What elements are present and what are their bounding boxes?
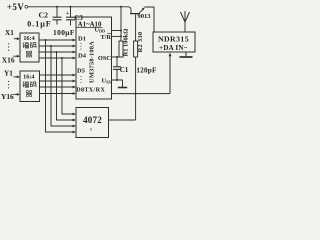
- capacitor C2: [53, 7, 62, 25]
- node C2 rail junction: [56, 6, 58, 8]
- wire D3 row: [39, 51, 73, 53]
- capacitor C3: [66, 7, 75, 26]
- svg-text:100μF: 100μF: [53, 28, 75, 37]
- svg-text:C1: C1: [120, 66, 129, 74]
- wire D7 row: [40, 86, 74, 88]
- wire OSC: [112, 56, 122, 58]
- svg-text:^: ^: [89, 128, 92, 134]
- encoder E1 16:4 box: [20, 33, 39, 62]
- wire R2 to node: [135, 57, 137, 120]
- node C3 rail junction: [70, 6, 72, 8]
- node UDD junction: [120, 30, 122, 32]
- resistor R1: [119, 41, 123, 57]
- svg-text:T/R: T/R: [101, 34, 112, 41]
- svg-text:4072: 4072: [83, 115, 102, 125]
- svg-text:D1: D1: [78, 36, 86, 43]
- node V4 tap: [61, 57, 63, 59]
- svg-text:Y1: Y1: [4, 70, 13, 78]
- wire D1 row: [39, 39, 73, 41]
- wire D2 row: [39, 45, 73, 47]
- node C1 top junction: [116, 56, 118, 58]
- wire tap V4: [62, 58, 74, 114]
- svg-text:Y16: Y16: [1, 92, 14, 101]
- wire D8 row: [40, 93, 74, 95]
- resistor R2: [134, 41, 138, 57]
- ground NDR minus: [180, 52, 193, 57]
- node R1 rail junction: [120, 6, 122, 8]
- svg-text:R1 100kΩ: R1 100kΩ: [123, 29, 130, 57]
- svg-text:USS: USS: [101, 78, 111, 85]
- svg-text:+5V: +5V: [7, 2, 25, 12]
- wire D4 row: [39, 57, 73, 59]
- wire emitter to NDR315 plus: [145, 7, 155, 32]
- wire D6 row: [40, 80, 74, 82]
- svg-text:9013: 9013: [137, 13, 151, 20]
- capacitor C1: [113, 57, 121, 80]
- svg-text:+DA IN−: +DA IN−: [159, 44, 188, 52]
- wire tap V2: [51, 46, 74, 126]
- wire +5V rail: [28, 6, 129, 8]
- svg-text:0.1μF: 0.1μF: [27, 20, 51, 29]
- wire D5 row: [40, 74, 74, 76]
- svg-text:R2 330: R2 330: [137, 32, 144, 53]
- node V1 tap: [45, 39, 47, 41]
- ground USS: [118, 87, 127, 89]
- wire UDD to +5V: [112, 7, 122, 41]
- wire 4072 output: [109, 119, 136, 121]
- svg-text:UM3758-108A: UM3758-108A: [89, 41, 96, 83]
- node T/R junction: [120, 35, 122, 37]
- svg-text:+: +: [66, 11, 69, 17]
- antenna: [181, 11, 190, 32]
- svg-text:D5: D5: [77, 68, 86, 75]
- svg-text:C2: C2: [39, 11, 49, 20]
- wire USS to ground: [112, 80, 123, 87]
- wire DA IN riser: [169, 54, 171, 94]
- IC U1 UM3758-108A box: [76, 17, 112, 99]
- encoder E2 16:4 box: [20, 71, 40, 102]
- wire tap V3: [57, 52, 74, 120]
- svg-text:X1: X1: [5, 29, 14, 37]
- module NDR315: [153, 32, 195, 52]
- node V2 tap: [50, 45, 52, 47]
- svg-text:120pF: 120pF: [136, 66, 157, 74]
- node TX/RX junction: [135, 93, 137, 95]
- svg-text:D8TX/RX: D8TX/RX: [76, 87, 105, 94]
- wire TX/RX: [112, 93, 171, 95]
- svg-text:X16: X16: [2, 56, 15, 65]
- transistor Q1 9013: [129, 7, 145, 41]
- gate U2 4072 box: [76, 108, 109, 138]
- svg-text:16:4: 16:4: [23, 35, 34, 42]
- svg-text:D4: D4: [78, 53, 87, 60]
- svg-text:16:4: 16:4: [23, 74, 34, 81]
- svg-text:NDR315: NDR315: [158, 34, 189, 43]
- node V3 tap: [56, 51, 58, 53]
- svg-text:UDD: UDD: [94, 27, 105, 34]
- svg-text:OSC: OSC: [98, 55, 112, 62]
- wire tap V1: [46, 40, 74, 132]
- node C1 bottom junction: [116, 79, 118, 81]
